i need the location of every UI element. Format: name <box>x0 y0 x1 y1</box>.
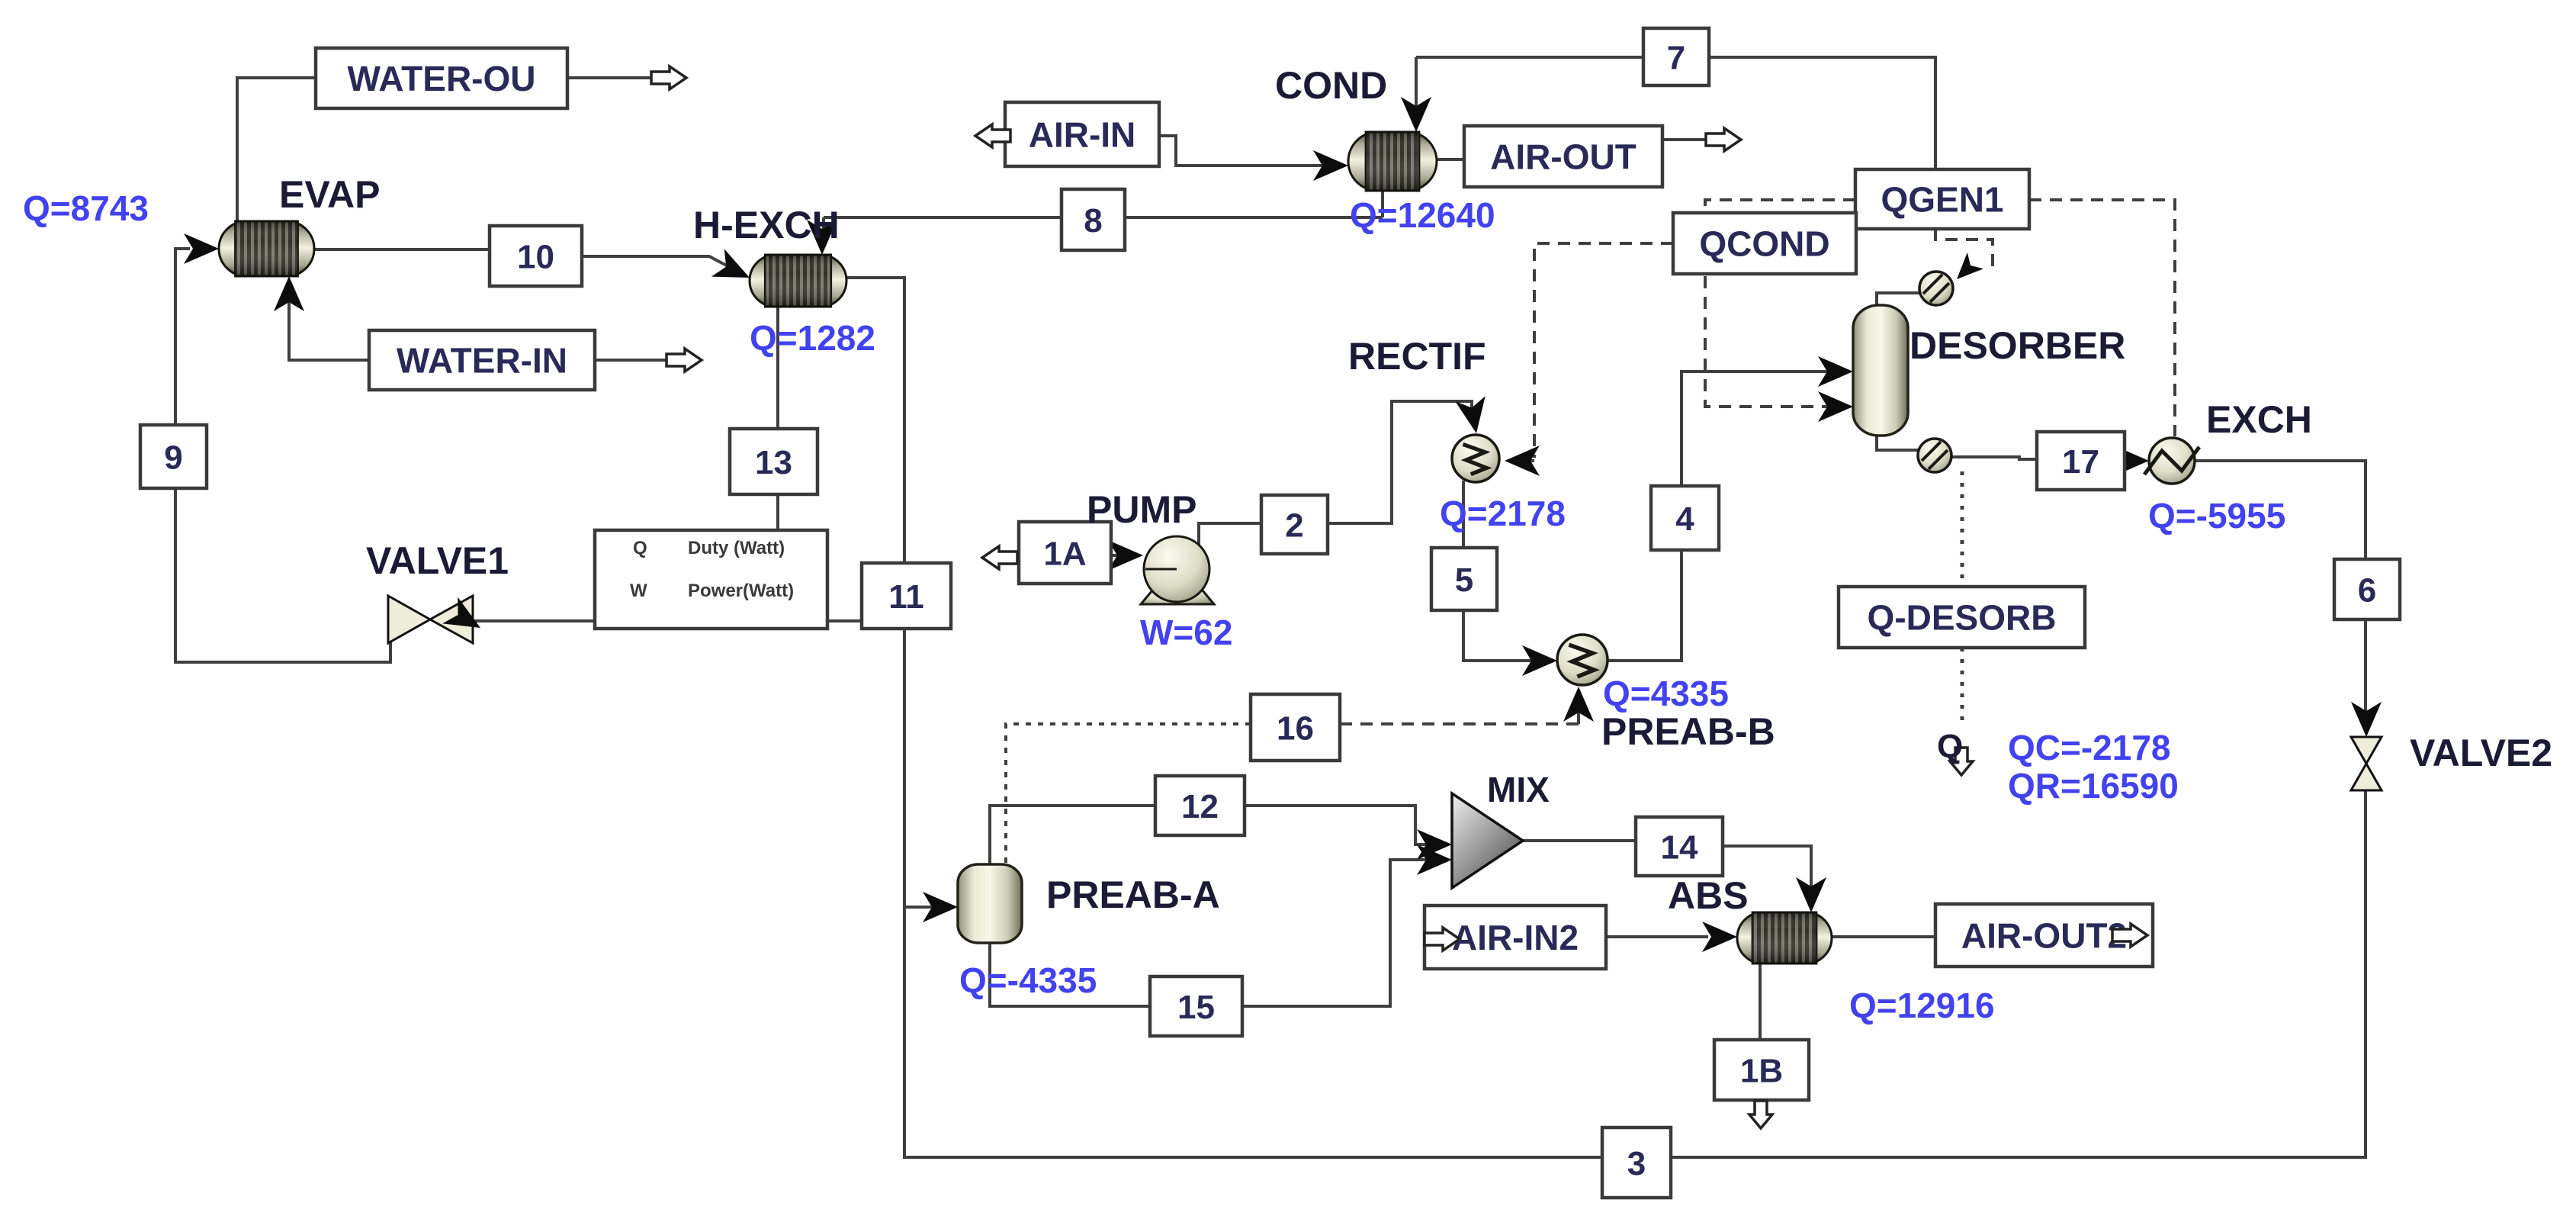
svg-text:EXCH: EXCH <box>2206 398 2312 441</box>
svg-text:QR=16590: QR=16590 <box>2008 766 2179 806</box>
svg-text:QCOND: QCOND <box>1699 224 1829 264</box>
svg-text:Power(Watt): Power(Watt) <box>688 581 794 601</box>
svg-text:QGEN1: QGEN1 <box>1881 180 2003 220</box>
svg-text:8: 8 <box>1084 202 1102 240</box>
svg-text:1A: 1A <box>1043 535 1086 572</box>
svg-text:AIR-OUT: AIR-OUT <box>1490 137 1636 177</box>
svg-text:Q=-4335: Q=-4335 <box>959 960 1097 1000</box>
svg-text:AIR-OUT2: AIR-OUT2 <box>1961 916 2127 956</box>
svg-text:11: 11 <box>888 578 924 616</box>
svg-text:Duty (Watt): Duty (Watt) <box>688 538 785 558</box>
svg-text:EVAP: EVAP <box>279 173 380 216</box>
svg-text:PUMP: PUMP <box>1087 488 1196 531</box>
svg-text:14: 14 <box>1661 828 1698 866</box>
svg-text:PREAB-A: PREAB-A <box>1046 873 1220 916</box>
svg-text:2: 2 <box>1285 507 1303 544</box>
svg-text:5: 5 <box>1455 561 1473 599</box>
svg-text:COND: COND <box>1275 64 1387 107</box>
svg-text:17: 17 <box>2062 443 2099 481</box>
svg-text:W=62: W=62 <box>1140 613 1232 652</box>
svg-text:DESORBER: DESORBER <box>1910 324 2125 367</box>
svg-text:W: W <box>630 581 647 601</box>
svg-text:15: 15 <box>1177 989 1215 1026</box>
svg-text:MIX: MIX <box>1487 770 1550 809</box>
svg-text:1B: 1B <box>1740 1052 1783 1089</box>
svg-text:4: 4 <box>1675 500 1694 538</box>
svg-text:7: 7 <box>1667 39 1685 76</box>
svg-text:Q=12640: Q=12640 <box>1350 195 1495 235</box>
svg-text:Q=4335: Q=4335 <box>1603 674 1729 713</box>
svg-text:10: 10 <box>517 238 554 275</box>
svg-text:13: 13 <box>755 444 792 481</box>
svg-text:6: 6 <box>2358 571 2376 609</box>
svg-text:AIR-IN: AIR-IN <box>1029 115 1136 155</box>
svg-text:16: 16 <box>1277 709 1314 747</box>
svg-text:9: 9 <box>164 439 182 476</box>
svg-text:Q-DESORB: Q-DESORB <box>1868 598 2057 638</box>
svg-text:Q=2178: Q=2178 <box>1440 494 1566 533</box>
svg-text:H-EXCH: H-EXCH <box>693 204 840 246</box>
svg-text:AIR-IN2: AIR-IN2 <box>1452 918 1579 957</box>
svg-text:PREAB-B: PREAB-B <box>1601 710 1775 753</box>
svg-text:WATER-OU: WATER-OU <box>347 59 535 98</box>
svg-text:Q=1282: Q=1282 <box>750 318 875 358</box>
svg-text:Q=12916: Q=12916 <box>1849 986 1995 1025</box>
svg-text:Q=8743: Q=8743 <box>23 188 149 228</box>
svg-text:RECTIF: RECTIF <box>1348 335 1486 378</box>
svg-text:ABS: ABS <box>1668 874 1749 917</box>
svg-text:Q=-5955: Q=-5955 <box>2148 496 2285 536</box>
svg-text:3: 3 <box>1627 1145 1646 1182</box>
svg-text:12: 12 <box>1181 788 1219 825</box>
svg-text:Q: Q <box>633 538 647 558</box>
svg-text:QC=-2178: QC=-2178 <box>2008 728 2171 767</box>
svg-text:Q: Q <box>1937 728 1963 765</box>
svg-text:WATER-IN: WATER-IN <box>397 341 567 381</box>
svg-text:VALVE2: VALVE2 <box>2410 732 2552 774</box>
svg-text:VALVE1: VALVE1 <box>366 539 509 582</box>
